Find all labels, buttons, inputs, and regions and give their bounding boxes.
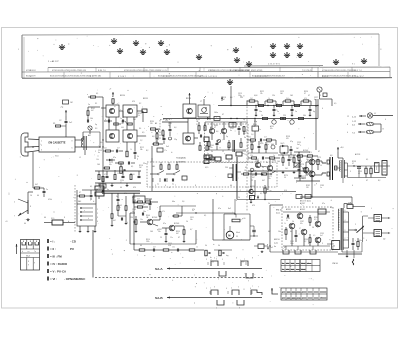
voltage table 1 bbox=[281, 260, 320, 272]
svg-text:OA79: OA79 bbox=[280, 142, 284, 145]
svg-text:4: 4 bbox=[214, 258, 215, 260]
transistor pinout view T13 bbox=[284, 43, 290, 49]
SA contacts group1 bbox=[150, 171, 180, 183]
second row parts bbox=[207, 117, 304, 125]
svg-text:0,64: 0,64 bbox=[250, 162, 253, 164]
tone network row bbox=[134, 249, 204, 252]
top data strip border bbox=[22, 34, 379, 78]
svg-text:lin: lin bbox=[210, 257, 212, 259]
svg-text:p: p bbox=[258, 103, 259, 105]
svg-text:8146 25793 08146 25793 08146 2: 8146 25793 08146 25793 08146 25793 08146… bbox=[158, 76, 204, 78]
transistors below center bbox=[249, 171, 255, 200]
scattered component value labels bbox=[30, 93, 388, 259]
svg-text:47: 47 bbox=[222, 114, 224, 116]
svg-text:470: 470 bbox=[252, 205, 255, 207]
svg-text:10n: 10n bbox=[296, 165, 299, 167]
thermistor box driver bbox=[293, 162, 301, 168]
svg-text:C295: C295 bbox=[320, 233, 324, 235]
svg-text:SA1: SA1 bbox=[152, 165, 155, 168]
long vertical x316 down bbox=[315, 99, 316, 150]
svg-text:BF195: BF195 bbox=[186, 98, 191, 100]
svg-text:6k8: 6k8 bbox=[271, 144, 274, 146]
svg-text:R274: R274 bbox=[284, 175, 288, 177]
IF column grounds bbox=[111, 183, 129, 187]
svg-text:0,6: 0,6 bbox=[216, 131, 218, 133]
svg-text:1,2: 1,2 bbox=[140, 140, 142, 142]
cassette motor M1 bbox=[226, 226, 240, 239]
svg-text:4p: 4p bbox=[313, 111, 315, 113]
svg-text:4,7k: 4,7k bbox=[284, 190, 287, 192]
svg-text:C315: C315 bbox=[168, 243, 172, 245]
svg-text:8 7 4 4 7: 8 7 4 4 7 bbox=[118, 76, 127, 78]
svg-text:- CD: - CD bbox=[70, 239, 76, 243]
svg-text:5: 5 bbox=[222, 259, 223, 261]
switch matrix box bbox=[21, 240, 40, 271]
wire y122 mid bbox=[162, 121, 188, 123]
svg-text:a: a bbox=[87, 94, 88, 96]
svg-text:(a-4): (a-4) bbox=[274, 243, 278, 245]
mixer input parts left bbox=[87, 94, 103, 123]
bold double wire below mid bbox=[102, 191, 296, 193]
svg-text:2k2: 2k2 bbox=[139, 167, 142, 169]
svg-text:R322: R322 bbox=[260, 91, 264, 93]
long wire connector down bbox=[32, 152, 34, 185]
small part Tr blob bbox=[142, 107, 147, 113]
FM tuner top small boxes bbox=[229, 123, 245, 136]
svg-text:8146 2579: 8146 2579 bbox=[26, 76, 36, 78]
ground below T10 bbox=[26, 218, 29, 221]
svg-text:6k4: 6k4 bbox=[222, 99, 225, 101]
svg-text:PU: PU bbox=[70, 247, 74, 251]
svg-text:6,4: 6,4 bbox=[230, 97, 232, 99]
svg-text:4 5 0 %: 4 5 0 % bbox=[160, 70, 167, 72]
transistor pinout view T12 bbox=[270, 43, 276, 49]
svg-text:22: 22 bbox=[251, 180, 253, 182]
preamp grounds bbox=[135, 230, 186, 242]
svg-text:C307: C307 bbox=[158, 229, 162, 231]
SA-A contact number row bbox=[206, 258, 253, 266]
svg-text:47k: 47k bbox=[118, 207, 121, 209]
svg-text:S1: S1 bbox=[95, 103, 97, 105]
svg-text:4k7: 4k7 bbox=[91, 110, 94, 112]
svg-text:R201: R201 bbox=[91, 108, 95, 110]
svg-text:10n: 10n bbox=[143, 211, 146, 213]
svg-text:47: 47 bbox=[299, 228, 301, 230]
svg-text:9: 9 bbox=[28, 265, 29, 267]
svg-text:0,1: 0,1 bbox=[96, 93, 98, 95]
svg-text:3: 3 bbox=[97, 217, 98, 219]
IF can S3 with transistor T3 bbox=[106, 130, 119, 142]
power amp labels bbox=[284, 223, 315, 237]
svg-text:R212: R212 bbox=[140, 147, 144, 149]
AGC resistor R16 bbox=[103, 167, 110, 169]
svg-text:4: 4 bbox=[352, 185, 353, 187]
svg-text:56: 56 bbox=[284, 177, 286, 179]
svg-text:R250: R250 bbox=[253, 124, 257, 126]
voltage table 2 bbox=[281, 288, 327, 300]
svg-text:52: 52 bbox=[318, 207, 320, 209]
svg-text:AF: AF bbox=[210, 126, 212, 129]
svg-text:0,64: 0,64 bbox=[132, 197, 135, 199]
detector diode D1 bbox=[106, 159, 115, 162]
wire x268 center drop bbox=[267, 171, 269, 190]
svg-text:5,6: 5,6 bbox=[182, 201, 184, 203]
component box right of amp bbox=[327, 241, 340, 250]
svg-text:0,1: 0,1 bbox=[260, 193, 262, 195]
svg-text:125: 125 bbox=[165, 120, 168, 122]
svg-text:0,1: 0,1 bbox=[204, 215, 206, 217]
svg-text:3: 3 bbox=[41, 150, 42, 152]
right ladder vertical bbox=[317, 99, 318, 119]
svg-text:5: 5 bbox=[238, 287, 239, 289]
svg-text:7: 7 bbox=[175, 185, 176, 187]
svg-text:2,2: 2,2 bbox=[196, 124, 198, 126]
legend line II bbox=[48, 247, 74, 251]
svg-text:C259: C259 bbox=[297, 142, 301, 144]
svg-text:25u: 25u bbox=[210, 147, 213, 149]
svg-text:6: 6 bbox=[236, 258, 237, 260]
svg-text:M: M bbox=[228, 234, 230, 238]
svg-text:R306: R306 bbox=[146, 215, 150, 217]
svg-text:R262: R262 bbox=[255, 159, 259, 161]
component reference label stacks bbox=[91, 91, 362, 247]
resistor R15 vertical bbox=[126, 142, 128, 157]
svg-text:10k: 10k bbox=[90, 118, 93, 120]
svg-text:1k: 1k bbox=[138, 115, 140, 117]
svg-text:470: 470 bbox=[299, 161, 302, 163]
svg-text:0,15: 0,15 bbox=[205, 167, 208, 169]
svg-text:4: 4 bbox=[322, 108, 323, 110]
svg-text:5k6: 5k6 bbox=[285, 168, 288, 170]
svg-text:0,5: 0,5 bbox=[313, 235, 315, 237]
resistor R5 on left drop bbox=[33, 184, 44, 189]
svg-text:EM 16: EM 16 bbox=[276, 210, 283, 212]
svg-text:BC148: BC148 bbox=[152, 217, 157, 219]
center bottom parts bbox=[250, 185, 272, 203]
svg-text:1k: 1k bbox=[268, 203, 270, 205]
svg-text:1k: 1k bbox=[130, 149, 132, 151]
svg-text:47: 47 bbox=[286, 229, 288, 231]
svg-text:C210: C210 bbox=[98, 150, 102, 152]
svg-text:6: 6 bbox=[347, 132, 348, 134]
svg-text:10: 10 bbox=[30, 195, 32, 197]
svg-text:5: 5 bbox=[350, 171, 351, 173]
dashed shield corner mid bbox=[160, 120, 172, 141]
svg-text:8: 8 bbox=[252, 258, 253, 260]
svg-text:R244: R244 bbox=[243, 131, 247, 133]
resistor R40 vertical bbox=[365, 166, 367, 178]
angle mark left of table 2 bbox=[271, 288, 278, 294]
svg-text:b: b bbox=[105, 119, 106, 121]
svg-text:10n: 10n bbox=[190, 219, 193, 221]
resistor R1 beside C2 bbox=[53, 123, 66, 127]
svg-text:b: b bbox=[22, 251, 23, 253]
svg-text:SA-A: SA-A bbox=[155, 267, 163, 271]
svg-text:ca: ca bbox=[28, 251, 30, 253]
strip type labels row bbox=[30, 69, 362, 72]
svg-text:R290: R290 bbox=[314, 217, 318, 219]
svg-text:2n: 2n bbox=[88, 104, 90, 106]
svg-text:64: 64 bbox=[230, 185, 232, 187]
svg-text:0,5: 0,5 bbox=[314, 219, 316, 221]
mid cluster labels bbox=[176, 157, 186, 164]
legend line VI bbox=[48, 277, 86, 281]
svg-text:220: 220 bbox=[240, 97, 243, 99]
FM tuner mid parts bbox=[208, 138, 242, 152]
svg-text:680: 680 bbox=[243, 133, 246, 135]
svg-text:4u: 4u bbox=[98, 152, 100, 154]
supply arrow driver stage bbox=[337, 147, 344, 160]
svg-text:5k: 5k bbox=[218, 245, 220, 247]
svg-text:4k7: 4k7 bbox=[113, 220, 116, 222]
svg-text:= III : FM: = III : FM bbox=[50, 254, 62, 258]
svg-text:47n: 47n bbox=[109, 164, 112, 166]
svg-text:C231: C231 bbox=[168, 123, 172, 125]
mid cluster left parts bbox=[148, 122, 172, 152]
svg-text:10k: 10k bbox=[96, 159, 99, 161]
transistor pinout view T5 bbox=[140, 49, 146, 55]
power amp transistors bbox=[289, 213, 321, 243]
svg-text:1k: 1k bbox=[284, 223, 286, 225]
speaker jack lower bbox=[363, 230, 391, 241]
svg-text:2: 2 bbox=[206, 288, 207, 290]
transistor pinout view T8 bbox=[196, 54, 202, 60]
center cluster labels bbox=[248, 137, 288, 171]
center bottom rail y171 bbox=[248, 171, 312, 175]
svg-text:7: 7 bbox=[142, 107, 143, 109]
long wire mid down bbox=[151, 146, 153, 191]
svg-text:△: △ bbox=[8, 192, 10, 195]
bold blobs left of lower IF bbox=[95, 183, 104, 199]
svg-text:C319: C319 bbox=[238, 93, 242, 95]
svg-text:64: 64 bbox=[140, 245, 142, 247]
svg-text:8: 8 bbox=[28, 261, 29, 263]
svg-text:AC187: AC187 bbox=[300, 202, 305, 205]
svg-text:5u: 5u bbox=[116, 196, 118, 198]
svg-text:47n: 47n bbox=[270, 128, 273, 130]
svg-text:150: 150 bbox=[244, 170, 247, 172]
svg-text:47981 62435 47981 62435 47981: 47981 62435 47981 62435 47981 62435 4798… bbox=[208, 70, 263, 72]
svg-text:6e: 6e bbox=[274, 246, 276, 248]
svg-text:5k6: 5k6 bbox=[133, 119, 136, 121]
svg-text:R286: R286 bbox=[286, 218, 290, 220]
preamp feedback wires bbox=[130, 212, 235, 244]
wire can down to mid box bbox=[187, 118, 189, 133]
SA series parts row bbox=[241, 171, 276, 176]
svg-text:4k7: 4k7 bbox=[268, 231, 271, 233]
strip right small text bbox=[268, 64, 355, 66]
mid IF can S6a bbox=[183, 133, 198, 144]
SA-B contacts above bbox=[210, 286, 262, 295]
svg-text:2n: 2n bbox=[266, 162, 268, 164]
coupling cap C40 bbox=[357, 166, 361, 178]
svg-text:5n: 5n bbox=[262, 167, 264, 169]
svg-text:1k: 1k bbox=[262, 170, 264, 172]
ferrite rod antenna L1 bbox=[79, 136, 86, 159]
svg-text:R230: R230 bbox=[150, 121, 154, 123]
svg-text:8,2: 8,2 bbox=[146, 150, 148, 152]
svg-text:1k: 1k bbox=[186, 221, 188, 223]
svg-text:3: 3 bbox=[216, 259, 217, 261]
svg-text:7 8 3 78 /8: 7 8 3 78 /8 bbox=[302, 70, 312, 72]
svg-text:4k7: 4k7 bbox=[176, 233, 179, 235]
svg-text:1T: 1T bbox=[200, 101, 202, 103]
svg-text:1 + AF 127: 1 + AF 127 bbox=[48, 60, 59, 63]
SA-B contacts below bbox=[216, 300, 244, 310]
svg-text:10u: 10u bbox=[140, 219, 143, 221]
svg-text:C311: C311 bbox=[190, 217, 194, 219]
strip caption AF127 bbox=[18, 49, 59, 63]
mid cluster extra parts bbox=[156, 130, 166, 145]
transistor pinout view T2 bbox=[111, 38, 117, 44]
svg-text:C249: C249 bbox=[242, 151, 246, 153]
svg-text:R282: R282 bbox=[306, 185, 310, 187]
svg-text:4a: 4a bbox=[207, 153, 209, 155]
SA inner cluster parts bbox=[157, 162, 187, 186]
svg-text:6: 6 bbox=[165, 185, 166, 187]
svg-text:4 3 6 4 7 8 9 1: 4 3 6 4 7 8 9 1 bbox=[268, 64, 280, 66]
svg-text:1: 1 bbox=[97, 209, 98, 211]
transistor T10 phono input bbox=[14, 199, 31, 225]
IF can S1 with transistor T1 bbox=[101, 105, 123, 117]
center cluster diode bridge bbox=[280, 145, 293, 155]
svg-text:8146 25793 08146 25793 08146 2: 8146 25793 08146 25793 08146 257 bbox=[252, 76, 286, 78]
svg-text:R258: R258 bbox=[286, 136, 290, 138]
svg-text:= I :: = I : bbox=[50, 239, 55, 243]
thick wire x237 down bbox=[236, 157, 238, 199]
legend line IV bbox=[48, 262, 68, 266]
svg-text:1a: 1a bbox=[157, 184, 159, 186]
svg-text:AD162: AD162 bbox=[300, 208, 305, 211]
ladder resistors above bbox=[247, 100, 311, 106]
power amp parts bbox=[283, 212, 330, 246]
svg-text:5p: 5p bbox=[243, 119, 245, 121]
svg-text:5n: 5n bbox=[259, 129, 261, 131]
svg-text:R298: R298 bbox=[352, 161, 356, 163]
svg-text:4n7: 4n7 bbox=[320, 235, 323, 237]
svg-text:47: 47 bbox=[178, 237, 180, 239]
mid right parts column bbox=[198, 122, 214, 164]
svg-text:47: 47 bbox=[245, 167, 247, 169]
SA dark contact bars bbox=[228, 164, 241, 181]
svg-text:4k7: 4k7 bbox=[262, 180, 265, 182]
svg-text:4n: 4n bbox=[254, 170, 256, 172]
svg-text:9: 9 bbox=[248, 281, 249, 283]
FM tuner bottom blobs bbox=[206, 152, 242, 163]
svg-text:4p: 4p bbox=[314, 99, 316, 101]
svg-text:470: 470 bbox=[104, 174, 107, 176]
svg-text:15n: 15n bbox=[117, 173, 120, 175]
plus mark below lamps bbox=[337, 140, 339, 142]
coupling resistors after bold wire bbox=[134, 199, 158, 204]
svg-text:R234: R234 bbox=[196, 119, 200, 121]
svg-text:5k: 5k bbox=[205, 245, 207, 247]
power amp dark box top bbox=[318, 207, 326, 214]
dial lamp label row2 bbox=[352, 121, 357, 123]
svg-text:10k: 10k bbox=[253, 126, 256, 128]
SA-A contacts below bbox=[218, 271, 253, 283]
arrow left of matrix bbox=[16, 244, 18, 254]
svg-text:60c/s: 60c/s bbox=[236, 232, 240, 234]
FM tuner dashed enclosure bbox=[205, 124, 249, 163]
legend line I bbox=[48, 239, 76, 243]
svg-text:7: 7 bbox=[147, 185, 148, 187]
transistor pinout view T4 bbox=[133, 40, 139, 46]
strip bottom text row bbox=[30, 75, 364, 78]
svg-text:SA-B: SA-B bbox=[155, 296, 163, 300]
svg-text:= IV : RADIO: = IV : RADIO bbox=[50, 262, 68, 266]
svg-text:C204: C204 bbox=[121, 121, 125, 123]
svg-text:3p: 3p bbox=[95, 124, 97, 126]
svg-text:0,45: 0,45 bbox=[260, 143, 263, 145]
svg-text:1n: 1n bbox=[273, 155, 275, 157]
svg-text:4n: 4n bbox=[230, 130, 232, 132]
svg-text:164: 164 bbox=[277, 161, 280, 163]
svg-text:R270: R270 bbox=[252, 175, 256, 177]
svg-text:4k7: 4k7 bbox=[35, 184, 38, 186]
svg-text:15n: 15n bbox=[172, 247, 175, 249]
svg-text:6: 6 bbox=[240, 260, 241, 262]
svg-text:64: 64 bbox=[290, 231, 292, 233]
svg-text:6: 6 bbox=[72, 148, 73, 150]
wire left into power amp bbox=[270, 205, 338, 252]
svg-text:C279: C279 bbox=[317, 157, 321, 159]
svg-text:1k: 1k bbox=[292, 221, 294, 223]
contact marks above table 1 bbox=[283, 246, 316, 254]
second ladder wire y118.5 bbox=[163, 118, 318, 119]
motor filter cap bbox=[250, 226, 258, 237]
SA tiny labels bbox=[152, 165, 264, 172]
svg-text:10u: 10u bbox=[278, 231, 281, 233]
IF can S5b bbox=[198, 96, 210, 117]
svg-text:0,1: 0,1 bbox=[90, 186, 92, 188]
svg-text:5k: 5k bbox=[211, 151, 213, 153]
scan speckle bbox=[15, 36, 394, 305]
svg-text:56: 56 bbox=[320, 165, 322, 167]
svg-text:47: 47 bbox=[348, 203, 350, 205]
IF column vertical wires bbox=[102, 105, 143, 168]
svg-text:4: 4 bbox=[231, 288, 232, 290]
motor governor resistor bbox=[232, 214, 245, 222]
SA-A axis bbox=[155, 267, 262, 271]
wire U1 pin8 up-right bbox=[75, 132, 100, 147]
svg-text:0,1: 0,1 bbox=[131, 166, 133, 168]
svg-text:0,1: 0,1 bbox=[120, 182, 122, 184]
svg-text:56k: 56k bbox=[303, 115, 306, 117]
supply arrow IF column bbox=[109, 89, 114, 98]
ladder resistors on line bbox=[259, 104, 300, 106]
capacitor C2 above U1 bbox=[59, 116, 72, 137]
svg-text:BF194: BF194 bbox=[120, 95, 125, 97]
right mid parts bbox=[296, 155, 320, 181]
svg-text:4: 4 bbox=[226, 288, 227, 290]
svg-text:470: 470 bbox=[304, 98, 307, 100]
driver transformer S7 bbox=[340, 160, 348, 178]
svg-text:3n9: 3n9 bbox=[166, 146, 169, 148]
svg-text:25u: 25u bbox=[158, 231, 161, 233]
svg-text:7a: 7a bbox=[34, 251, 36, 253]
svg-text:2k: 2k bbox=[137, 156, 139, 158]
preamp parts bbox=[135, 206, 196, 240]
svg-text:47u: 47u bbox=[300, 223, 303, 225]
svg-text:4,5: 4,5 bbox=[142, 132, 144, 134]
right mid labels bbox=[298, 152, 322, 167]
dial lamp LA1 row bbox=[352, 113, 393, 119]
svg-text:= V : PU-CA: = V : PU-CA bbox=[50, 269, 67, 273]
svg-text:25u: 25u bbox=[268, 178, 271, 180]
svg-text:+8,6: +8,6 bbox=[340, 147, 344, 149]
svg-text:47: 47 bbox=[352, 163, 354, 165]
